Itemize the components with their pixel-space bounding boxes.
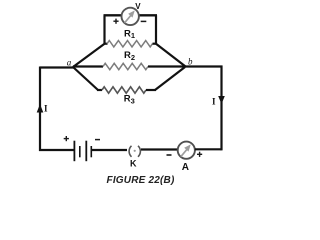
wire: R1 to node b diagonal: [156, 44, 186, 67]
ammeter A circle: [178, 142, 195, 159]
wire: R1 right lead: [153, 43, 158, 45]
wire: R3 right lead: [146, 89, 156, 91]
wire: R2 left lead: [73, 65, 103, 67]
wire: battery to key: [91, 149, 127, 151]
svg-text:I: I: [44, 104, 48, 114]
resistor R1 zigzag: [107, 41, 153, 47]
key K right paren: [138, 146, 140, 157]
wire: ammeter to bottom right corner: [195, 148, 222, 150]
voltmeter U1 circle: [122, 8, 139, 25]
wire: R3 to node b diagonal: [155, 67, 185, 90]
resistor R3 zigzag: [102, 87, 146, 93]
wire: left vertical: [39, 67, 41, 152]
wire: R2 right lead: [148, 65, 185, 67]
svg-text:a: a: [67, 57, 72, 67]
wire: node b to right corner: [184, 65, 223, 67]
current arrow down (right wire): [218, 96, 225, 104]
svg-text:R1: R1: [124, 28, 135, 40]
svg-text:b: b: [188, 56, 193, 66]
wire: R1 left lead: [104, 43, 108, 45]
label + (voltmeter left): [113, 19, 118, 24]
label + (ammeter right): [197, 152, 202, 157]
wire: right vertical: [220, 66, 222, 151]
svg-text:FIGURE 22(B): FIGURE 22(B): [107, 175, 175, 186]
svg-text:K: K: [130, 158, 137, 168]
svg-text:A: A: [182, 162, 189, 173]
label - (battery): [95, 139, 100, 141]
wire: key to ammeter: [141, 148, 177, 150]
wire: node a to left corner: [40, 66, 74, 68]
battery B1: short plate 1: [79, 146, 81, 157]
label - (ammeter left): [167, 154, 172, 156]
wire: node a to R1 diagonal: [73, 44, 105, 67]
svg-text:R3: R3: [124, 94, 135, 106]
battery B1: long plate 1: [73, 141, 75, 162]
wire: node a to R3 diagonal: [73, 67, 98, 90]
resistor R2 zigzag: [103, 63, 148, 69]
ammeter needle: [181, 144, 191, 156]
wire: R3 left lead: [97, 89, 102, 91]
wire: voltmeter loop top horizontal: [104, 14, 158, 16]
label - (voltmeter right): [141, 20, 147, 22]
svg-text:V: V: [135, 2, 141, 11]
voltmeter needle: [125, 10, 135, 22]
current arrow up (left wire): [37, 104, 44, 113]
wire: voltmeter loop left vertical: [103, 15, 105, 44]
svg-text:I: I: [212, 97, 216, 107]
key K dot: [134, 150, 136, 152]
battery B1: short plate 2: [90, 146, 92, 157]
label + (battery): [64, 136, 69, 141]
battery B1: long plate 2: [85, 141, 87, 162]
wire: voltmeter loop right vertical: [155, 15, 157, 44]
svg-text:R2: R2: [124, 50, 135, 62]
key K left paren: [129, 146, 131, 157]
wire: bottom left to battery: [39, 149, 74, 151]
